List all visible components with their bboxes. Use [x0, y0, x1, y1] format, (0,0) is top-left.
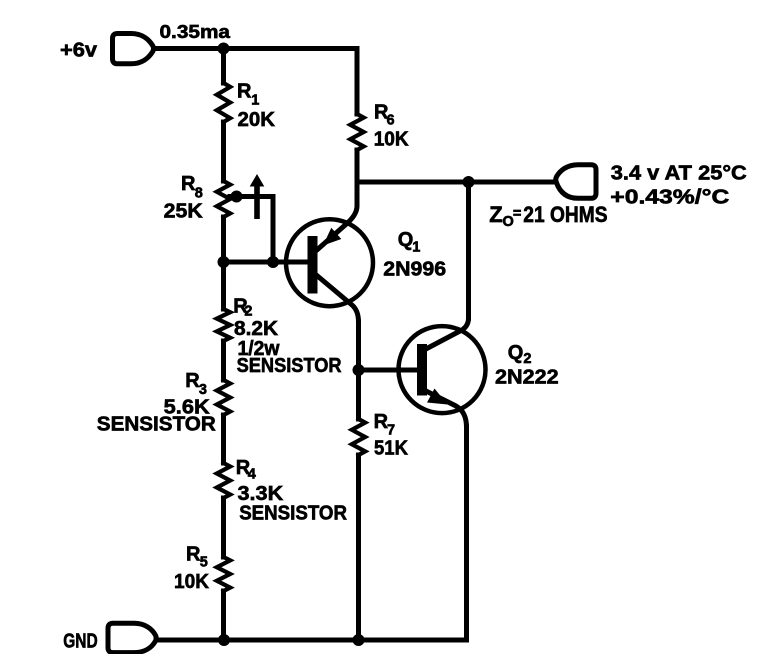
- resistor R2: [217, 309, 230, 341]
- svg-text:8.2K: 8.2K: [234, 318, 279, 340]
- wire R3 to R4: [221, 415, 226, 463]
- resistor R1: [217, 83, 230, 122]
- wire R8 wiper to base node: [230, 197, 273, 263]
- svg-text:R: R: [181, 173, 196, 195]
- svg-text:R: R: [186, 544, 201, 566]
- wire Q2 base: [359, 368, 418, 373]
- resistor R7: [352, 419, 365, 455]
- svg-text:6: 6: [387, 113, 395, 129]
- terminal +6V: [113, 34, 154, 64]
- wire R7 to ground rail: [356, 455, 361, 640]
- junction wiper-base node: [267, 256, 279, 268]
- junction R8 wiper tap: [231, 191, 243, 203]
- junction ground rail right: [353, 634, 365, 646]
- wire R2 to R3: [221, 341, 226, 380]
- svg-text:3.3K: 3.3K: [238, 483, 284, 505]
- junction ground rail left: [218, 634, 230, 646]
- svg-text:8: 8: [195, 185, 203, 201]
- resistor R3: [217, 380, 230, 415]
- transistor Q1: [286, 182, 373, 322]
- svg-text:Q: Q: [508, 342, 524, 364]
- svg-text:10K: 10K: [174, 571, 210, 593]
- svg-text:GND: GND: [63, 630, 97, 652]
- svg-text:SENSISTOR: SENSISTOR: [97, 414, 217, 436]
- R8 wiper arrow: [250, 174, 265, 219]
- svg-text:+6v: +6v: [60, 40, 98, 62]
- svg-text:SENSISTOR: SENSISTOR: [237, 355, 343, 377]
- wire base node to Q1 base: [224, 260, 308, 265]
- svg-text:51K: 51K: [374, 438, 409, 460]
- svg-text:SENSISTOR: SENSISTOR: [239, 503, 347, 525]
- wire R4 to R5: [221, 498, 226, 557]
- transistor Q2: [399, 318, 486, 427]
- wire top rail (+6V to R6 corner): [154, 46, 358, 51]
- wire R5 to ground rail: [221, 591, 226, 640]
- wire Q1 collector to Q2 base node: [356, 322, 361, 370]
- resistor R6: [350, 114, 363, 150]
- svg-text:=: =: [513, 206, 521, 222]
- junction top node: [218, 43, 230, 55]
- junction base node: [218, 256, 230, 268]
- terminal GND: [108, 623, 156, 652]
- svg-text:7: 7: [387, 422, 395, 438]
- svg-text:Q: Q: [398, 229, 414, 251]
- wire output node to Q2 collector: [466, 182, 471, 318]
- svg-text:R: R: [237, 81, 252, 103]
- svg-text:2N222: 2N222: [495, 367, 559, 389]
- junction Q2 base node: [353, 364, 365, 376]
- svg-text:20K: 20K: [238, 109, 276, 131]
- svg-text:25K: 25K: [164, 201, 204, 223]
- resistor R4: [217, 463, 230, 498]
- wire R6 to output node: [355, 150, 360, 182]
- svg-text:2N996: 2N996: [383, 259, 446, 281]
- svg-text:Z: Z: [489, 202, 502, 227]
- terminal output: [556, 165, 596, 199]
- svg-text:4: 4: [248, 466, 256, 482]
- svg-text:5: 5: [200, 555, 208, 571]
- wire R8 to R2: [221, 217, 226, 309]
- svg-text:21 OHMS: 21 OHMS: [523, 202, 607, 227]
- wire R1 to R8: [221, 122, 226, 181]
- svg-text:0.35ma: 0.35ma: [160, 21, 231, 42]
- wire top corner to R6: [355, 49, 360, 115]
- potentiometer R8: [217, 181, 230, 217]
- svg-text:10K: 10K: [374, 129, 410, 151]
- svg-text:1: 1: [412, 240, 420, 256]
- svg-text:1: 1: [251, 93, 259, 109]
- svg-text:+0.43%/°C: +0.43%/°C: [610, 187, 729, 209]
- wire output rail: [357, 180, 555, 185]
- svg-text:3.4 v AT 25°C: 3.4 v AT 25°C: [611, 163, 747, 185]
- wire Q2 base node to R7: [356, 370, 361, 419]
- wire Q2 emitter to ground rail: [464, 427, 469, 640]
- resistor R5: [217, 557, 230, 591]
- svg-text:2: 2: [523, 351, 531, 367]
- wire left rail: top node to R1: [221, 49, 226, 84]
- wire ground rail: [156, 638, 467, 643]
- junction output node: [463, 176, 475, 188]
